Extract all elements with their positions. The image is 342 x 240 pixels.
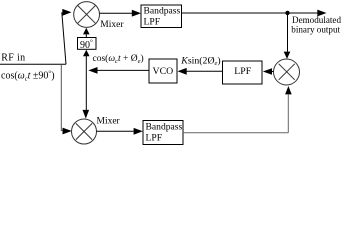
wire 90 box top to mixer M1	[85, 34, 87, 37]
svg-text:LPF: LPF	[144, 17, 161, 28]
wire arrow into mixer M1	[62, 9, 71, 16]
wire BP1 output to demod arrow	[182, 12, 318, 14]
wire M3 output to LPF	[271, 71, 274, 73]
wire arrow into M1 bottom	[83, 28, 90, 35]
wire arrow pointing left at vertical feed	[88, 67, 97, 74]
block BP1 Bandpass LPF (top)	[141, 5, 182, 28]
wire arrow into M3 bottom	[285, 86, 292, 94]
wire arrow into VCO right side	[178, 68, 187, 75]
svg-text:cos(ωct + Øe): cos(ωct + Øe)	[93, 53, 144, 65]
wire feedback vertical up to M3	[287, 95, 289, 133]
wire arrow into BP2	[134, 128, 143, 135]
block LPF	[223, 61, 263, 84]
block 90 degree phase shift	[78, 38, 97, 51]
svg-text:Bandpass: Bandpass	[144, 6, 181, 17]
wire arrow into M3 top	[284, 52, 291, 59]
block VCO	[149, 59, 177, 83]
svg-text:Ksin(2Øe): Ksin(2Øe)	[180, 55, 220, 67]
wire arrow into BP1	[132, 10, 141, 17]
wire junction down to multiplier M3	[287, 13, 289, 52]
svg-text:VCO: VCO	[153, 66, 174, 77]
wire demod output arrow	[317, 10, 326, 17]
node junction dot	[285, 11, 289, 15]
svg-text:LPF: LPF	[146, 133, 163, 144]
svg-text:Demodulated: Demodulated	[292, 15, 341, 25]
wire M2 output	[97, 130, 134, 132]
wire RF input line	[0, 63, 66, 65]
wire VCO output	[97, 69, 149, 71]
wire lower input rail	[60, 64, 62, 131]
svg-text:binary output: binary output	[291, 25, 340, 35]
mixer M1 (top)	[74, 2, 100, 28]
svg-text:RF in: RF in	[1, 52, 25, 63]
wire vertical feed down to mixer M2	[85, 70, 87, 110]
svg-text:cos(ωct ±90°): cos(ωct ±90°)	[1, 70, 55, 83]
svg-text:Mixer: Mixer	[100, 20, 124, 30]
wire arrow into LPF right side	[263, 68, 272, 75]
wire arrow into mixer M2	[63, 128, 72, 135]
svg-text:Mixer: Mixer	[97, 116, 121, 126]
block BP2 Bandpass LPF (bottom)	[143, 121, 183, 145]
svg-text:Bandpass: Bandpass	[146, 122, 183, 133]
wire feedback horizontal from BP2 to M3	[183, 132, 288, 134]
wire arrow into 90 box bottom	[83, 50, 90, 57]
svg-text:LPF: LPF	[234, 66, 251, 77]
mixer M2 (bottom)	[72, 119, 97, 144]
wire vertical feed up to 90 box	[85, 56, 87, 70]
multiplier M3 (right)	[274, 59, 300, 85]
wire arrow into M2 top	[83, 110, 90, 119]
wire upper input rail	[62, 12, 66, 64]
wire LPF output	[186, 70, 223, 72]
wire M1 output	[100, 12, 133, 14]
